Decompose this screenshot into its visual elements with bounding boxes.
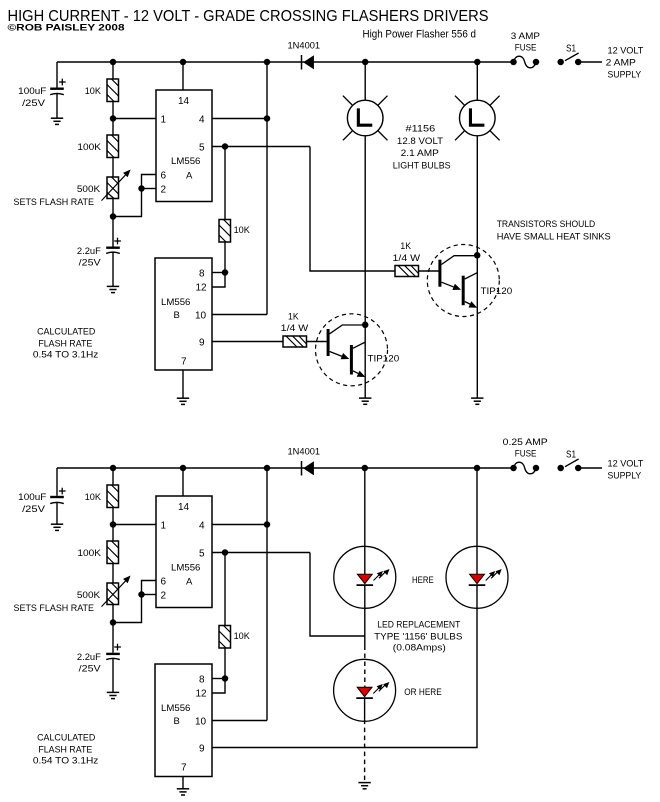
svg-text:10: 10	[195, 310, 207, 321]
wire node1 to R2	[112, 119, 114, 136]
wire bulb L1 to Q2 collector	[364, 136, 366, 399]
wire pin 5 out	[212, 146, 310, 148]
wire C3 to ground	[56, 503, 58, 525]
wire R3 to node2	[112, 199, 114, 217]
svg-text:12: 12	[196, 689, 208, 700]
potentiometer R3 arrow	[102, 174, 127, 200]
wire pin5 node to R10	[224, 553, 226, 626]
svg-text:0.54 TO 3.1Hz: 0.54 TO 3.1Hz	[33, 350, 99, 361]
wire pin5 route to LED1	[310, 553, 365, 637]
junction on rail at bulb L2	[474, 59, 481, 66]
junction pin5 node bottom	[222, 549, 229, 556]
junction pin5 node	[222, 143, 229, 150]
wire pin 4 to reset line	[212, 118, 267, 120]
svg-text:1: 1	[161, 114, 167, 125]
capacitor C2 2.2uF plus sign	[114, 240, 121, 242]
capacitor C2 2.2uF plates	[106, 246, 120, 248]
junction pin2 node bottom	[138, 591, 145, 598]
wire pin 14 stem	[182, 62, 184, 90]
wire R9 to node4	[112, 605, 114, 623]
LED D4	[446, 546, 508, 608]
potentiometer R3 500K	[107, 177, 119, 199]
wire bulb L1 top	[364, 62, 366, 101]
resistor R4 10K	[219, 220, 231, 243]
svg-text:5: 5	[199, 548, 205, 559]
wire LED1 top	[364, 468, 366, 546]
resistor R7 10K	[107, 485, 119, 508]
svg-text:LM556: LM556	[161, 297, 190, 308]
potentiometer R9 500K	[107, 583, 119, 605]
capacitor C3 100uF plus sign	[59, 490, 66, 492]
svg-text:TYPE '1156' BULBS: TYPE '1156' BULBS	[374, 631, 462, 642]
IC U2B LM556 box	[155, 664, 212, 777]
ground below C3	[51, 523, 63, 525]
wire pins 6-2 bracket bottom	[142, 581, 157, 595]
svg-text:7: 7	[181, 357, 187, 368]
svg-text:100K: 100K	[77, 142, 101, 153]
junction on rail above C1/10K	[110, 59, 117, 66]
svg-text:CALCULATED: CALCULATED	[37, 733, 95, 744]
svg-text:HERE: HERE	[412, 575, 434, 586]
svg-text:OR HERE: OR HERE	[404, 687, 441, 698]
capacitor C4 2.2uF plates	[106, 653, 120, 655]
wire reset vertical x267 bottom	[266, 468, 268, 721]
wire reset vertical x267	[266, 62, 268, 315]
diode D1 1N4001 symbol	[301, 55, 303, 70]
svg-text:FUSE: FUSE	[515, 43, 537, 54]
svg-text:10K: 10K	[234, 225, 251, 236]
capacitor C1 100uF plus sign	[59, 81, 66, 83]
svg-text:3 AMP: 3 AMP	[511, 31, 540, 42]
svg-text:10: 10	[195, 716, 207, 727]
wire pin 9 to LED2	[212, 608, 477, 747]
svg-text:100uF: 100uF	[18, 492, 46, 503]
svg-text:0.25 AMP: 0.25 AMP	[503, 437, 548, 448]
wire dashed LED1 to LED3	[364, 646, 366, 688]
wire pin 7 stem	[182, 370, 184, 398]
potentiometer R9 arrow	[102, 580, 127, 606]
wire R4 to pin8 node	[224, 242, 226, 273]
svg-text:1/4 W: 1/4 W	[281, 323, 309, 334]
svg-text:1/4 W: 1/4 W	[393, 253, 421, 264]
ground below pin 7	[177, 397, 189, 399]
IC U1A LM556 box	[156, 90, 212, 202]
svg-text:SETS FLASH RATE: SETS FLASH RATE	[14, 603, 95, 614]
svg-text:10K: 10K	[234, 631, 251, 642]
svg-text:LM556: LM556	[161, 703, 190, 714]
svg-text:1: 1	[161, 520, 167, 531]
svg-text:A: A	[186, 170, 193, 181]
svg-text:7: 7	[181, 763, 187, 774]
svg-text:2.2uF: 2.2uF	[77, 246, 101, 257]
svg-text:2 AMP: 2 AMP	[606, 58, 636, 69]
junction on rail2 at LED2	[474, 465, 481, 472]
svg-text:S1: S1	[566, 44, 576, 55]
wire LED2 internal anode	[476, 546, 478, 574]
LED D5 optional	[334, 659, 396, 721]
wire node1 to pin 1	[113, 118, 156, 120]
junction on rail at pin14 stem	[180, 59, 187, 66]
LED D3	[334, 546, 396, 608]
capacitor C4 2.2uF plus sign	[114, 646, 121, 648]
node4 junction 500K/cap bottom	[110, 619, 117, 626]
wire pin8 node to pin 12 bottom	[212, 679, 225, 694]
wire pin5 node to R4	[224, 147, 226, 220]
wire C4 to ground	[112, 659, 114, 693]
wire cap C1 branch	[56, 62, 58, 88]
svg-text:©ROB PAISLEY 2008: ©ROB PAISLEY 2008	[8, 23, 125, 34]
svg-text:100K: 100K	[77, 548, 101, 559]
svg-text:4: 4	[199, 114, 205, 125]
junction on rail2 above C3/10K	[110, 465, 117, 472]
svg-text:LM556: LM556	[171, 156, 200, 167]
wire pin2 node to node4	[113, 595, 142, 623]
wire pins 6-2 bracket	[142, 175, 157, 189]
wire R1 to node1	[112, 102, 114, 119]
resistor R2 100K	[107, 135, 119, 158]
wire dashed LED3 to ground	[364, 720, 366, 781]
wire bulb L2 top	[476, 62, 478, 101]
fuse F2 0.25A	[510, 465, 517, 472]
svg-text:2: 2	[161, 591, 167, 602]
wire cap C3 branch	[56, 468, 58, 496]
junction on rail at reset wire	[264, 59, 271, 66]
svg-text:LIGHT BULBS: LIGHT BULBS	[393, 160, 451, 171]
wire R6 to Q1 base	[419, 270, 440, 272]
wire +12V rail top	[57, 61, 514, 63]
svg-text:High Power Flasher 556 d: High Power Flasher 556 d	[363, 29, 477, 41]
wire pin5 route to Q1 base resistor	[310, 147, 395, 272]
svg-text:10K: 10K	[85, 86, 102, 97]
wire pin 9 out	[212, 341, 283, 343]
node pin1 junction bottom	[110, 521, 117, 528]
wire pin 10	[212, 314, 267, 316]
svg-text:SUPPLY: SUPPLY	[608, 471, 642, 482]
transistor Q2 collector junction	[362, 322, 369, 329]
resistor R6 1K quarter watt	[395, 266, 419, 277]
diode D2 1N4001 symbol	[301, 461, 303, 476]
wire node2 to C2	[112, 217, 114, 247]
svg-text:S1: S1	[566, 450, 576, 461]
svg-text:8: 8	[199, 675, 205, 686]
transistor Q1 TIP120 (right)	[427, 245, 499, 317]
wire pin8 node to pin 12	[212, 273, 225, 288]
svg-text:TRANSISTORS SHOULD: TRANSISTORS SHOULD	[497, 219, 596, 230]
wire pin 4 to reset line bottom	[212, 524, 267, 526]
ground below Q1	[471, 397, 483, 399]
svg-text:/25V: /25V	[22, 98, 46, 109]
wire pin 8	[212, 272, 225, 274]
resistor R1 10K	[107, 79, 119, 102]
svg-text:2.1 AMP: 2.1 AMP	[401, 148, 439, 159]
svg-text:1K: 1K	[288, 311, 299, 322]
ground below Q2	[359, 397, 371, 399]
switch S1 bottom	[557, 465, 564, 472]
wire to supply top	[578, 61, 602, 63]
wire pin2 node to node2	[113, 189, 142, 217]
wire rail to R1	[112, 62, 114, 79]
ground below C2	[107, 285, 119, 287]
svg-text:B: B	[174, 310, 180, 321]
IC U1B LM556 box	[155, 258, 212, 370]
svg-text:1K: 1K	[400, 241, 411, 252]
ground below LED3	[358, 782, 370, 784]
junction on rail2 at LED1	[362, 465, 369, 472]
svg-text:LM556: LM556	[171, 563, 200, 574]
capacitor C3 100uF plates	[50, 496, 64, 498]
wire C1 to ground	[56, 94, 58, 118]
wire node4 to C4	[112, 623, 114, 653]
junction pin4/reset	[264, 115, 271, 122]
svg-text:9: 9	[199, 744, 205, 755]
wire LED2 top	[476, 468, 478, 546]
wire R8 to R9	[112, 564, 114, 584]
light bulb L1	[347, 100, 383, 136]
resistor R5 1K quarter watt	[283, 336, 307, 347]
svg-text:LED REPLACEMENT: LED REPLACEMENT	[377, 619, 460, 630]
resistor R10 10K	[219, 626, 231, 649]
svg-text:(0.08Amps): (0.08Amps)	[393, 643, 446, 654]
junction on rail at bulb L1	[362, 59, 369, 66]
svg-text:100uF: 100uF	[18, 86, 46, 97]
wire LED2 cathode down	[476, 585, 478, 608]
svg-text:CALCULATED: CALCULATED	[37, 327, 95, 338]
wire LED1 cathode down	[364, 585, 366, 645]
svg-text:500K: 500K	[77, 184, 101, 195]
wire to supply bottom	[578, 467, 602, 469]
svg-text:12 VOLT: 12 VOLT	[608, 46, 644, 57]
wire pin 14 stem bottom	[182, 468, 184, 496]
svg-text:SUPPLY: SUPPLY	[608, 70, 642, 81]
svg-text:4: 4	[199, 520, 205, 531]
svg-text:A: A	[186, 576, 193, 587]
svg-text:FUSE: FUSE	[515, 449, 537, 460]
wire node3 to pin 1	[113, 524, 156, 526]
wire C2 to ground	[112, 252, 114, 286]
svg-text:TIP120: TIP120	[368, 354, 400, 365]
ground below C1	[51, 117, 63, 119]
svg-text:#1156: #1156	[406, 123, 436, 134]
svg-text:1N4001: 1N4001	[288, 447, 321, 458]
junction pin2 node	[138, 185, 145, 192]
svg-text:0.54 TO 3.1Hz: 0.54 TO 3.1Hz	[33, 756, 99, 767]
node2 junction 500K/cap	[110, 213, 117, 220]
svg-text:9: 9	[199, 338, 205, 349]
svg-text:FLASH RATE: FLASH RATE	[38, 338, 92, 349]
wire pin 8 bottom	[212, 678, 225, 680]
capacitor C1 100uF plates	[50, 87, 64, 89]
svg-text:/25V: /25V	[79, 257, 102, 268]
svg-text:HAVE SMALL HEAT SINKS: HAVE SMALL HEAT SINKS	[497, 232, 611, 243]
junction on rail2 at reset wire	[264, 465, 271, 472]
wire bulb L2 to Q1 collector	[476, 136, 478, 399]
wire R10 to pin8 node	[224, 648, 226, 679]
ground below pin 7 bottom	[177, 788, 189, 790]
wire node3 to R8	[112, 525, 114, 542]
fuse F1 3A	[510, 59, 517, 66]
svg-text:12: 12	[196, 283, 208, 294]
svg-text:FLASH RATE: FLASH RATE	[38, 744, 92, 755]
wire R2 to R3	[112, 158, 114, 178]
svg-text:14: 14	[178, 502, 190, 513]
resistor R8 100K	[107, 541, 119, 564]
svg-text:/25V: /25V	[79, 663, 102, 674]
junction pin8 node bottom	[222, 675, 229, 682]
wire LED1 internal anode	[364, 546, 366, 574]
svg-text:2: 2	[161, 185, 167, 196]
svg-text:1N4001: 1N4001	[288, 41, 321, 52]
junction pin8 node	[222, 269, 229, 276]
wire rail2 to R7	[112, 468, 114, 485]
wire pin 10 bottom	[212, 720, 267, 722]
wire pin 7 stem bottom	[182, 777, 184, 789]
IC U2A LM556 box	[156, 496, 212, 608]
svg-text:6: 6	[161, 577, 167, 588]
ground below C4	[107, 691, 119, 693]
wire pin 5 out bottom	[212, 552, 310, 554]
transistor Q2 TIP120 (left)	[316, 314, 388, 386]
wire R5 to Q2 base	[307, 341, 327, 343]
light bulb L2	[460, 100, 496, 136]
wire LED3 cathode down	[364, 698, 366, 720]
junction pin4/reset bottom	[264, 521, 271, 528]
svg-text:5: 5	[199, 142, 205, 153]
svg-text:10K: 10K	[85, 492, 102, 503]
wire +12V rail bottom	[57, 467, 514, 469]
transistor Q1 collector junction	[474, 252, 481, 258]
svg-text:12 VOLT: 12 VOLT	[608, 459, 644, 470]
svg-text:500K: 500K	[77, 590, 101, 601]
svg-text:6: 6	[161, 171, 167, 182]
svg-text:12.8 VOLT: 12.8 VOLT	[397, 136, 443, 147]
svg-text:8: 8	[199, 269, 205, 280]
svg-text:2.2uF: 2.2uF	[77, 652, 101, 663]
svg-text:/25V: /25V	[22, 504, 46, 515]
svg-text:TIP120: TIP120	[481, 286, 513, 297]
junction on rail2 at pin14 stem	[180, 465, 187, 472]
wire R7 to node3	[112, 508, 114, 525]
node pin1 junction	[110, 115, 117, 122]
svg-text:B: B	[174, 716, 180, 727]
svg-text:14: 14	[178, 96, 190, 107]
svg-text:SETS FLASH RATE: SETS FLASH RATE	[14, 197, 95, 208]
switch S1 top	[557, 59, 564, 66]
